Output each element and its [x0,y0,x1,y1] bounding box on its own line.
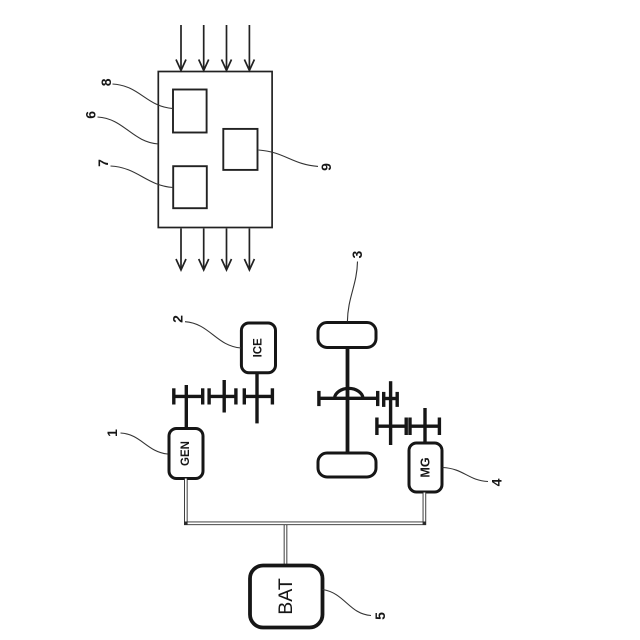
gear bar on GEN shaft [174,388,203,404]
output arrow 2 [199,229,209,271]
sub-block 9 [223,129,257,170]
idler gear [209,380,236,413]
input arrow 3 [222,25,232,71]
front wheel [318,323,376,348]
label 2 [170,315,186,323]
svg-text:MG: MG [419,457,433,477]
input arrow 1 [176,25,186,71]
svg-text:BAT: BAT [275,578,297,615]
leader 8 [113,84,174,109]
svg-text:2: 2 [170,315,186,323]
leader 2 [185,322,241,348]
MG shaft [423,408,426,444]
GEN shaft [185,385,188,430]
label 6 [83,111,99,119]
svg-text:6: 6 [83,111,99,119]
reduction shaft [389,381,392,445]
leader 6 [98,117,159,144]
GEN box 1 [169,429,203,479]
reduction gear upper [384,392,398,407]
svg-text:4: 4 [489,478,505,486]
input arrow 2 [199,25,209,71]
svg-text:ICE: ICE [253,338,265,358]
label 5 [372,612,388,620]
axle [346,348,350,454]
input arrow 4 [244,25,254,71]
leader 9 [259,150,318,166]
output arrow 1 [176,229,186,271]
label 4 [489,478,505,486]
output arrow 4 [244,229,254,271]
leader 3 [347,262,357,322]
sub-block 7 [173,166,207,208]
MG gear [410,418,439,436]
BAT box 5 [250,566,323,628]
ICE box 2 [241,323,275,373]
reduction gear lower [377,418,406,436]
ICE shaft [255,372,258,424]
label 3 [349,250,365,258]
label 9 [318,163,334,171]
label 1 [104,429,120,437]
leader 1 [121,433,168,454]
svg-text:7: 7 [95,159,111,167]
ICE gear [244,388,272,404]
svg-text:8: 8 [98,78,114,86]
MG box 4 [409,443,442,492]
leader 4 [443,468,489,482]
counter shaft with crossover bump [319,388,378,406]
leader 7 [111,166,174,188]
label 7 [95,159,111,167]
electric bus double line [186,479,425,565]
label 8 [98,78,114,86]
leader 5 [323,590,372,616]
rear wheel [318,453,376,477]
svg-text:3: 3 [349,250,365,258]
sub-block 8 [173,90,207,133]
svg-text:9: 9 [318,163,334,171]
svg-text:GEN: GEN [180,441,192,466]
controller block 6 [158,72,272,228]
output arrow 3 [222,229,232,271]
svg-text:5: 5 [372,612,388,620]
svg-text:1: 1 [104,429,120,437]
